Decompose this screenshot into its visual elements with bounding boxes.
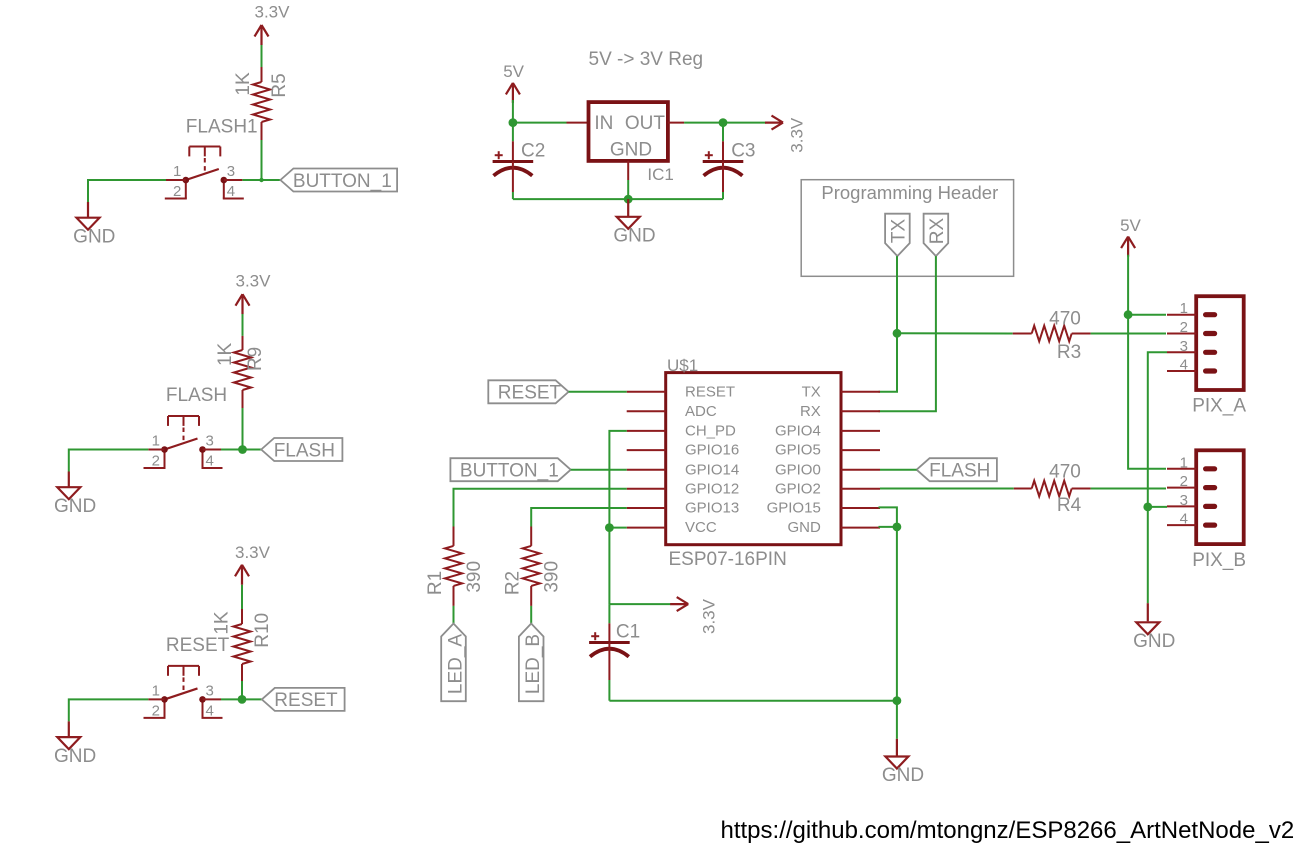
wire GND rail C2-C3	[513, 198, 723, 200]
svg-text:GPIO2: GPIO2	[775, 480, 821, 497]
resistor 1K R9	[234, 336, 251, 408]
svg-text:TX: TX	[888, 219, 909, 244]
wire GPIO0 to FLASH flag	[880, 469, 917, 471]
pin GPIO15 (U$1)	[767, 500, 880, 517]
svg-text:GND: GND	[882, 765, 924, 786]
svg-text:RESET: RESET	[498, 383, 562, 404]
wire node to flag FLASH	[221, 449, 261, 451]
junction node TX	[893, 329, 902, 338]
wire PIX_A pin3 to GND rail	[1148, 352, 1167, 507]
svg-text:VCC: VCC	[685, 519, 717, 536]
svg-text:FLASH: FLASH	[274, 440, 335, 461]
svg-text:1: 1	[152, 433, 160, 450]
svg-text:RESET: RESET	[685, 383, 735, 400]
wire C1 to GND node	[609, 700, 897, 702]
wire pin3 lead (FLASH)	[203, 449, 222, 451]
svg-text:5V -> 3V Reg: 5V -> 3V Reg	[589, 49, 704, 70]
svg-text:FLASH1: FLASH1	[186, 116, 258, 137]
svg-text:470: 470	[1049, 309, 1081, 330]
svg-text:4: 4	[206, 702, 214, 719]
resistor 1K R5	[253, 67, 270, 140]
svg-text:R1: R1	[425, 571, 446, 595]
svg-text:3.3V: 3.3V	[700, 598, 719, 634]
svg-text:4: 4	[227, 183, 235, 200]
svg-text:1: 1	[1180, 300, 1188, 317]
wire 3.3V arrow to R9	[242, 314, 244, 336]
pin GPIO12 (U$1)	[627, 480, 740, 497]
power flag 3.3V (above R10)	[235, 543, 271, 585]
wire R1 to LED_A flag	[453, 606, 455, 624]
svg-text:3.3V: 3.3V	[788, 117, 807, 153]
wire pin1 lead (FLASH1)	[166, 179, 186, 181]
svg-text:5V: 5V	[1120, 216, 1141, 235]
svg-text:3: 3	[227, 163, 235, 180]
wire pin1 lead (RESET)	[148, 698, 164, 700]
svg-text:GPIO0: GPIO0	[775, 461, 821, 478]
svg-text:1K: 1K	[233, 72, 254, 96]
svg-text:RESET: RESET	[166, 635, 230, 656]
svg-text:GND: GND	[787, 519, 821, 536]
power flag 5V (IC1)	[503, 62, 524, 103]
wire OUT to 3.3V	[684, 122, 766, 124]
pin RESET (U$1)	[627, 383, 735, 400]
svg-text:U$1: U$1	[667, 356, 698, 375]
wire R3 to PIX_A pin2	[1091, 333, 1166, 335]
svg-text:2: 2	[173, 183, 181, 200]
svg-text:BUTTON_1: BUTTON_1	[293, 171, 392, 192]
wire R3 lead left	[1013, 333, 1032, 335]
net flag RESET	[262, 688, 345, 711]
svg-text:1: 1	[173, 163, 181, 180]
svg-text:GPIO12: GPIO12	[685, 480, 739, 497]
svg-text:OUT: OUT	[625, 113, 666, 134]
junction node VCC	[605, 523, 614, 532]
svg-text:PIX_B: PIX_B	[1192, 550, 1246, 571]
net flag LED_B	[519, 624, 544, 702]
svg-text:FLASH: FLASH	[166, 385, 227, 406]
power flag 3.3V (above R9)	[236, 272, 272, 315]
wire switch to GND (FLASH)	[69, 450, 149, 472]
switch RESET	[144, 666, 223, 718]
wire 3.3V arrow to R5	[261, 45, 263, 67]
svg-text:3: 3	[206, 682, 214, 699]
wire IC1 GND pin to rail	[627, 180, 629, 199]
wire R2 to LED_B flag	[530, 606, 532, 624]
regulator IC1	[589, 102, 668, 180]
pin CH_PD (U$1)	[627, 423, 736, 440]
junction node FLASH	[238, 445, 247, 454]
wire R4 lead right	[1072, 488, 1091, 490]
svg-text:LED_A: LED_A	[446, 634, 467, 695]
pin ADC (U$1)	[627, 403, 717, 420]
svg-text:R9: R9	[245, 347, 266, 371]
wire switch to GND (FLASH1)	[88, 180, 166, 202]
power flag 5V (PIX)	[1120, 216, 1141, 257]
svg-text:470: 470	[1049, 462, 1081, 483]
wire node to flag BUTTON_1	[242, 179, 280, 181]
resistor 1K R10	[233, 609, 250, 681]
svg-text:https://github.com/mtongnz/ESP: https://github.com/mtongnz/ESP8266_ArtNe…	[721, 817, 1295, 844]
wire node to IN pin	[513, 122, 567, 124]
svg-text:C2: C2	[521, 141, 545, 162]
wire node to PIX_A pin1	[1128, 314, 1166, 316]
wire TX node to R3	[897, 332, 1013, 334]
wire GPIO15 to GND rail	[879, 507, 897, 527]
svg-text:RX: RX	[927, 217, 948, 244]
wire GPIO2 to R4	[880, 488, 1014, 490]
wire R10 to node	[241, 681, 243, 699]
wire IN pin lead (IC1)	[567, 122, 589, 124]
svg-text:3: 3	[206, 433, 214, 450]
wire RX flag to U$1 RX pin	[879, 256, 936, 411]
svg-text:R3: R3	[1057, 342, 1081, 363]
svg-text:RESET: RESET	[274, 690, 338, 711]
wire R9 to node	[242, 408, 244, 450]
svg-text:R2: R2	[503, 571, 524, 595]
svg-text:3: 3	[1180, 338, 1188, 355]
svg-text:GPIO4: GPIO4	[775, 423, 821, 440]
wire GPIO12 to R1	[454, 489, 627, 527]
wire pin1 lead (FLASH)	[148, 449, 164, 451]
svg-text:2: 2	[1180, 473, 1188, 490]
wire switch to GND (RESET)	[69, 699, 149, 721]
svg-text:390: 390	[464, 561, 485, 593]
junction node GND (IC1)	[624, 195, 633, 204]
pin GPIO16 (U$1)	[627, 442, 740, 459]
svg-text:GPIO15: GPIO15	[767, 500, 821, 517]
wire 3.3V arrow to R10	[241, 585, 243, 609]
wire R3 lead right	[1072, 333, 1091, 335]
connector PIX_B pin numbers	[1180, 454, 1188, 527]
wire TX flag to node	[896, 256, 898, 333]
svg-text:2: 2	[152, 453, 160, 470]
wire GND pin to rail	[879, 526, 897, 528]
power flag 3.3V (IC1 OUT)	[765, 116, 807, 153]
resistor 470 R3	[1032, 326, 1072, 342]
pin GPIO2 (U$1)	[775, 480, 880, 497]
ground GND (PIX)	[1133, 603, 1175, 652]
pin GPIO5 (U$1)	[775, 442, 880, 459]
pin VCC (U$1)	[627, 519, 717, 536]
wire R4 lead left	[1014, 488, 1032, 490]
pin GPIO0 (U$1)	[775, 461, 880, 478]
connector PIX_A	[1167, 296, 1244, 390]
junction node IN/C2	[509, 118, 518, 127]
junction node OUT/C3	[719, 118, 728, 127]
switch FLASH1	[165, 147, 244, 199]
svg-text:ADC: ADC	[685, 403, 717, 420]
svg-text:R5: R5	[269, 73, 290, 97]
switch FLASH pin numbers	[152, 433, 214, 470]
svg-text:GND: GND	[73, 227, 115, 248]
pin RX (U$1)	[800, 403, 880, 420]
svg-text:GND: GND	[610, 140, 652, 161]
svg-text:R4: R4	[1057, 495, 1082, 516]
svg-text:RX: RX	[800, 403, 821, 420]
svg-text:GND: GND	[54, 496, 96, 517]
capacitor C2	[493, 123, 534, 200]
net flag BUTTON_1 (U$1)	[450, 458, 570, 481]
svg-text:2: 2	[152, 702, 160, 719]
pin GPIO14 (U$1)	[627, 461, 740, 478]
svg-text:C1: C1	[616, 622, 640, 643]
svg-text:IN: IN	[594, 113, 613, 134]
capacitor C1	[589, 604, 630, 701]
IC U$1 ESP07-16PIN box	[666, 373, 841, 545]
switch FLASH1 pin numbers	[173, 163, 235, 200]
svg-text:2: 2	[1180, 319, 1188, 336]
junction node RESET	[238, 695, 247, 704]
svg-text:5V: 5V	[503, 62, 524, 81]
ground GND (FLASH)	[54, 472, 96, 518]
svg-text:1K: 1K	[215, 342, 236, 366]
wire pin3 lead (FLASH1)	[224, 179, 243, 181]
net flag BUTTON_1	[280, 169, 397, 192]
wire TX node to U$1 TX pin	[879, 333, 898, 392]
net flag FLASH	[261, 438, 342, 461]
net flag TX	[885, 214, 910, 256]
svg-text:TX: TX	[802, 383, 821, 400]
svg-text:LED_B: LED_B	[523, 634, 544, 694]
svg-text:4: 4	[206, 453, 214, 470]
wire CH_PD to VCC rail	[609, 431, 626, 528]
pin GND (U$1)	[787, 519, 880, 536]
svg-text:R10: R10	[252, 613, 273, 648]
junction node GND (U$1)	[893, 696, 902, 705]
wire GND rail down (PIX)	[1147, 507, 1149, 603]
wire GPIO13 to R2	[531, 508, 627, 527]
resistor 390 R2	[523, 527, 540, 606]
svg-text:GND: GND	[613, 226, 655, 247]
wire 5V to IN node	[512, 100, 514, 123]
svg-text:CH_PD: CH_PD	[685, 423, 736, 440]
ground GND (U$1)	[882, 701, 924, 786]
svg-text:3.3V: 3.3V	[236, 272, 272, 291]
junction node BUTTON_1	[259, 178, 263, 182]
wire 5V rail	[1128, 255, 1166, 469]
svg-text:GPIO14: GPIO14	[685, 461, 739, 478]
svg-text:C3: C3	[731, 141, 755, 162]
resistor 390 R1	[445, 527, 462, 606]
svg-text:4: 4	[1180, 511, 1188, 528]
junction node PIX_B pin3	[1143, 503, 1152, 512]
svg-text:BUTTON_1: BUTTON_1	[460, 461, 559, 482]
power flag 3.3V (VCC)	[670, 597, 718, 634]
wire GND rail down	[896, 527, 898, 701]
svg-text:GPIO13: GPIO13	[685, 500, 739, 517]
net flag RESET (U$1)	[488, 380, 568, 403]
wire BUTTON_1 flag to pin	[571, 469, 627, 471]
net flag LED_A	[441, 624, 466, 702]
svg-text:1: 1	[152, 682, 160, 699]
switch RESET pin numbers	[152, 682, 214, 719]
ground GND (IC1)	[613, 199, 655, 246]
svg-text:GPIO5: GPIO5	[775, 442, 821, 459]
wire node to PIX_B pin3	[1148, 506, 1167, 508]
svg-text:4: 4	[1180, 357, 1188, 374]
switch FLASH	[144, 416, 223, 468]
capacitor C3	[703, 123, 744, 200]
junction node 5V/PIX_A pin1	[1124, 310, 1133, 319]
svg-text:390: 390	[541, 561, 562, 593]
ground GND (FLASH1)	[73, 202, 115, 248]
connector PIX_A pin numbers	[1180, 300, 1188, 373]
svg-text:GND: GND	[1133, 631, 1175, 652]
pin TX (U$1)	[802, 383, 880, 400]
resistor 470 R4	[1032, 481, 1072, 497]
wire VCC rail to C1	[608, 528, 610, 605]
svg-text:Programming Header: Programming Header	[821, 182, 998, 203]
wire R5 to node	[261, 140, 263, 180]
svg-text:PIX_A: PIX_A	[1192, 396, 1246, 417]
wire OUT pin lead (IC1)	[668, 122, 684, 124]
svg-text:GND: GND	[54, 746, 96, 767]
svg-text:1: 1	[1180, 454, 1188, 471]
programming header box	[801, 180, 1013, 277]
svg-text:1K: 1K	[212, 611, 233, 635]
connector PIX_B	[1167, 450, 1244, 544]
svg-text:ESP07-16PIN: ESP07-16PIN	[669, 549, 787, 570]
junction node GND pin (U$1)	[893, 523, 902, 532]
wire branch to 3.3V arrow	[609, 603, 670, 605]
net flag FLASH (GPIO0)	[917, 458, 997, 481]
net flag RX	[924, 214, 949, 256]
pin GPIO4 (U$1)	[775, 423, 880, 440]
wire VCC pin to rail	[609, 527, 626, 529]
svg-text:FLASH: FLASH	[929, 461, 990, 482]
svg-text:3.3V: 3.3V	[235, 543, 271, 562]
power flag 3.3V (above R5)	[255, 3, 291, 46]
wire R4 to PIX_B pin2	[1091, 488, 1166, 490]
wire RESET flag to pin	[569, 391, 627, 393]
wire pin3 lead (RESET)	[203, 698, 222, 700]
svg-text:IC1: IC1	[647, 165, 673, 184]
pin GPIO13 (U$1)	[627, 500, 740, 517]
svg-text:GPIO16: GPIO16	[685, 442, 739, 459]
svg-text:3: 3	[1180, 492, 1188, 509]
ground GND (RESET)	[54, 721, 96, 767]
wire node to flag RESET	[221, 698, 262, 700]
svg-text:3.3V: 3.3V	[255, 3, 291, 22]
